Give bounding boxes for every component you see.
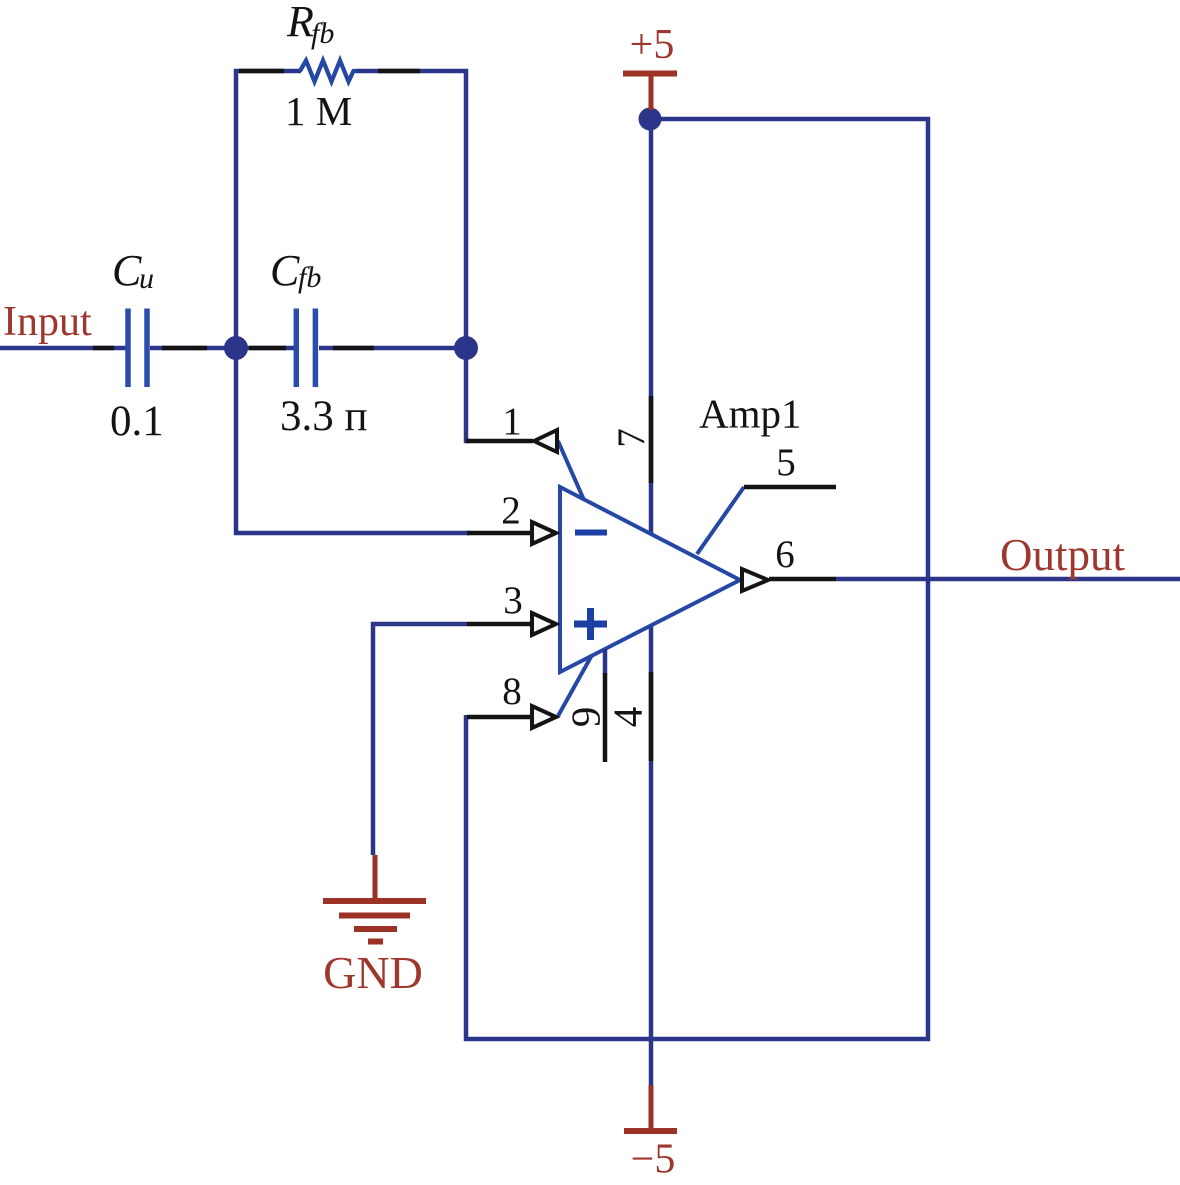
svg-text:C: C [270, 246, 300, 295]
svg-text:Amp1: Amp1 [699, 391, 802, 437]
svg-text:fb: fb [298, 261, 321, 294]
pin 9 lead black vertical [603, 673, 608, 762]
pin 7 lead black vertical [649, 396, 654, 483]
capacitor Cfb plates [296, 309, 315, 388]
wire V+ / V- supply vertical [649, 119, 654, 1085]
svg-text:0.1: 0.1 [110, 398, 164, 445]
svg-text:8: 8 [502, 670, 522, 713]
svg-text:+5: +5 [630, 22, 675, 68]
pin 8 arrowhead [532, 706, 556, 728]
black wire overlay Rfb right [378, 69, 420, 74]
resistor Rfb zigzag [300, 61, 357, 82]
pin 3 lead black [467, 622, 530, 627]
svg-text:1: 1 [502, 400, 522, 443]
svg-text:3.3 п: 3.3 п [280, 393, 368, 440]
pin 4 lead black vertical [649, 672, 654, 761]
pin 8 diagonal to body [558, 655, 592, 716]
wire feedback loop top right and right riser [356, 71, 466, 349]
wire output [836, 577, 1180, 582]
wire node A down to pin 2 [236, 349, 470, 533]
svg-text:4: 4 [604, 707, 650, 728]
svg-text:5: 5 [776, 441, 796, 484]
black wire overlay Rfb left [239, 69, 284, 74]
svg-text:u: u [139, 262, 154, 295]
wire node A to Cfb [236, 346, 294, 351]
svg-text:Output: Output [1000, 530, 1126, 580]
-5 supply symbol [649, 1085, 654, 1129]
node +5 junction dot [639, 108, 662, 131]
svg-text:2: 2 [501, 489, 521, 532]
pin 9 stub blue [603, 649, 608, 675]
svg-text:C: C [112, 246, 142, 295]
black wire overlay Cu right [162, 346, 207, 351]
svg-text:−5: −5 [631, 1137, 676, 1183]
pin 1 arrowhead [534, 430, 557, 452]
svg-text:GND: GND [323, 947, 423, 998]
pin 5 diagonal to body [697, 487, 744, 554]
pin 5 lead black [744, 485, 836, 490]
svg-text:7: 7 [610, 428, 653, 448]
wire input horizontal to Cu [0, 346, 126, 351]
svg-text:1 M: 1 M [285, 88, 352, 134]
pin 1 lead black [466, 439, 533, 444]
svg-text:6: 6 [775, 533, 795, 576]
ground symbol [373, 855, 378, 899]
svg-text:R: R [286, 0, 314, 46]
black wire overlay input left [93, 346, 114, 351]
node B junction dot [454, 336, 478, 360]
svg-text:Input: Input [3, 299, 92, 345]
capacitor Cu plates [128, 309, 147, 388]
svg-text:3: 3 [503, 579, 523, 622]
op-amp U1 Amp1 triangle [560, 487, 740, 672]
pin 8 lead black [467, 715, 530, 720]
pin 3 arrowhead [532, 613, 556, 635]
op-amp plus input mark [574, 608, 607, 640]
wire Cu to node A [150, 346, 236, 351]
svg-text:fb: fb [311, 17, 334, 50]
node A junction dot [224, 336, 248, 360]
op-amp minus input mark [575, 530, 607, 536]
wire pin 3 to GND riser [373, 624, 467, 855]
black wire overlay Cfb right [333, 346, 374, 351]
wire feedback loop left riser and top [236, 71, 301, 349]
pin 2 lead black [467, 531, 530, 536]
pin 2 arrowhead [532, 522, 556, 544]
+5 supply symbol [623, 71, 677, 77]
wire +5 node right, down right side, bottom, up to pin 8 [466, 119, 928, 1039]
wire Cfb to node B [319, 346, 466, 351]
wire node B down to pin 1 [466, 349, 470, 441]
pin 6 lead black [769, 577, 836, 582]
pin 1 diagonal to body [558, 441, 584, 500]
black wire overlay node A right [249, 346, 286, 351]
svg-text:9: 9 [562, 707, 608, 728]
pin 6 arrowhead [742, 569, 768, 591]
